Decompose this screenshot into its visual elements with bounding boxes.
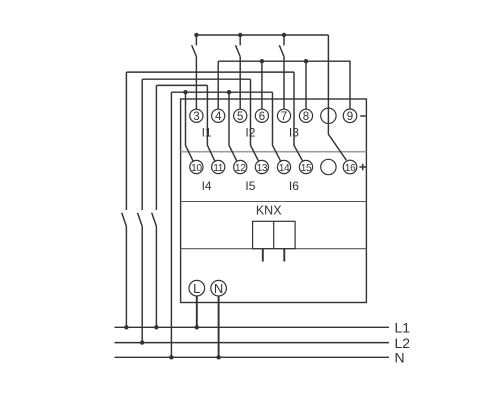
pin KNX connector leg 2 — [283, 249, 285, 262]
terminal 5 — [234, 109, 247, 122]
node junction on L2 — [140, 340, 144, 344]
svg-text:I2: I2 — [245, 126, 255, 140]
svg-text:9: 9 — [347, 111, 353, 123]
wire feed to terminal 11 — [207, 85, 215, 161]
net L1 line — [115, 326, 390, 328]
terminal 15 — [299, 160, 312, 173]
svg-text:L2: L2 — [395, 335, 411, 351]
wire bracket b2 (L2 feed) horizontal — [142, 78, 250, 80]
node junction b4/v12 — [227, 90, 231, 94]
svg-text:6: 6 — [259, 111, 265, 123]
wire L terminal to L1 — [196, 296, 198, 327]
wire switch S2 to terminal 5 — [239, 57, 241, 110]
svg-text:10: 10 — [191, 163, 202, 174]
wire feed to terminal 13 — [251, 79, 259, 161]
svg-text:4: 4 — [215, 111, 222, 123]
wire feed to terminal 14 — [273, 92, 281, 161]
svg-text:N: N — [395, 350, 405, 366]
node junction above terminal 6 — [260, 59, 264, 63]
wire switch S4 to L1 — [125, 226, 127, 327]
wire feed to terminal 15 — [294, 72, 303, 161]
node junction on L1 — [154, 325, 158, 329]
divider (gray) between terminal rows — [181, 151, 367, 153]
svg-text:L1: L1 — [395, 320, 411, 336]
terminal L — [189, 280, 205, 296]
pin label minus at terminal 9 — [360, 115, 365, 117]
terminal 11 — [212, 160, 225, 173]
node junction on L1 — [124, 325, 128, 329]
terminal 13 — [255, 160, 268, 173]
wire drop to terminal 8 — [305, 61, 307, 109]
wire minus bus 4-6-8-9 — [218, 61, 350, 109]
wire drop to terminal 6 — [261, 61, 263, 109]
svg-text:7: 7 — [281, 111, 287, 123]
terminal 16 — [343, 160, 357, 174]
svg-text:14: 14 — [279, 163, 290, 174]
wire bracket drop to switch S5 — [141, 79, 143, 210]
terminal 4 — [212, 109, 225, 122]
wire feed to terminal 12 — [229, 92, 237, 161]
wire switch S1 to terminal 3 — [195, 57, 197, 110]
terminal 9 — [343, 109, 357, 123]
wire bracket drop to switch S6 — [155, 85, 157, 210]
svg-text:I6: I6 — [289, 179, 299, 193]
svg-text:12: 12 — [235, 163, 246, 174]
terminal 6 — [255, 109, 268, 122]
divider above KNX section — [181, 201, 367, 203]
divider below KNX section — [181, 248, 367, 250]
wire bracket drop to switch S4 — [125, 72, 127, 210]
svg-text:I5: I5 — [245, 179, 255, 193]
terminal 3 — [190, 109, 203, 122]
pin label plus at terminal 16 — [359, 166, 366, 168]
device outline — [181, 99, 367, 303]
node junction b4 on N — [169, 355, 173, 359]
node junction S3 on top bus — [282, 33, 286, 37]
wire bus drop through spare terminal to 16 — [328, 35, 346, 160]
node junction L on L1 — [195, 325, 199, 329]
switch S2 — [239, 35, 241, 45]
svg-text:L: L — [193, 281, 200, 296]
switch S6 — [152, 213, 157, 227]
terminal 8 — [299, 109, 312, 122]
node junction N on N line — [216, 355, 220, 359]
terminal 14 — [277, 160, 290, 173]
wire top bus (+ feed) — [196, 34, 328, 36]
terminal N — [211, 280, 227, 296]
svg-text:13: 13 — [257, 163, 268, 174]
wire b4 common down to N — [170, 92, 172, 357]
node junction b4/v10 — [183, 90, 187, 94]
terminal 7 — [277, 109, 290, 122]
wire drop to terminal 4 — [217, 61, 219, 109]
svg-text:16: 16 — [345, 163, 356, 174]
svg-text:8: 8 — [303, 111, 309, 123]
spare terminal row 1 — [321, 108, 336, 123]
svg-text:KNX: KNX — [256, 203, 282, 217]
KNX bus connector block — [253, 221, 296, 248]
wire switch S5 to L2 — [141, 226, 143, 342]
wire N terminal to N line — [218, 296, 220, 357]
spare terminal row 2 — [321, 159, 336, 174]
net L2 line — [115, 342, 390, 344]
terminal 12 — [234, 160, 247, 173]
svg-text:5: 5 — [237, 111, 243, 123]
svg-text:I3: I3 — [289, 126, 299, 140]
wire bracket b3 (L1 feed) horizontal — [156, 84, 207, 86]
switch S5 — [138, 213, 143, 227]
svg-text:N: N — [214, 281, 223, 296]
svg-text:I1: I1 — [202, 126, 212, 140]
wire feed to terminal 10 — [186, 92, 194, 161]
net N line — [115, 356, 390, 358]
svg-text:I4: I4 — [202, 179, 212, 193]
node junction S2 on top bus — [238, 33, 242, 37]
terminal 10 — [190, 160, 203, 173]
switch S1 — [195, 35, 197, 45]
switch S4 — [122, 213, 127, 227]
pin KNX connector leg 1 — [262, 249, 264, 262]
wire switch S6 to L1 — [155, 226, 157, 327]
node junction above terminal 8 — [304, 59, 308, 63]
node junction S1 on top bus — [194, 33, 198, 37]
svg-text:15: 15 — [301, 163, 312, 174]
svg-text:3: 3 — [193, 111, 199, 123]
svg-text:11: 11 — [213, 163, 224, 174]
wire switch S3 to terminal 7 — [283, 57, 285, 110]
switch S3 — [283, 35, 285, 45]
wire bracket b1 (L1 feed) horizontal — [126, 71, 294, 73]
wire bracket b4 (N common) horizontal — [171, 91, 272, 93]
